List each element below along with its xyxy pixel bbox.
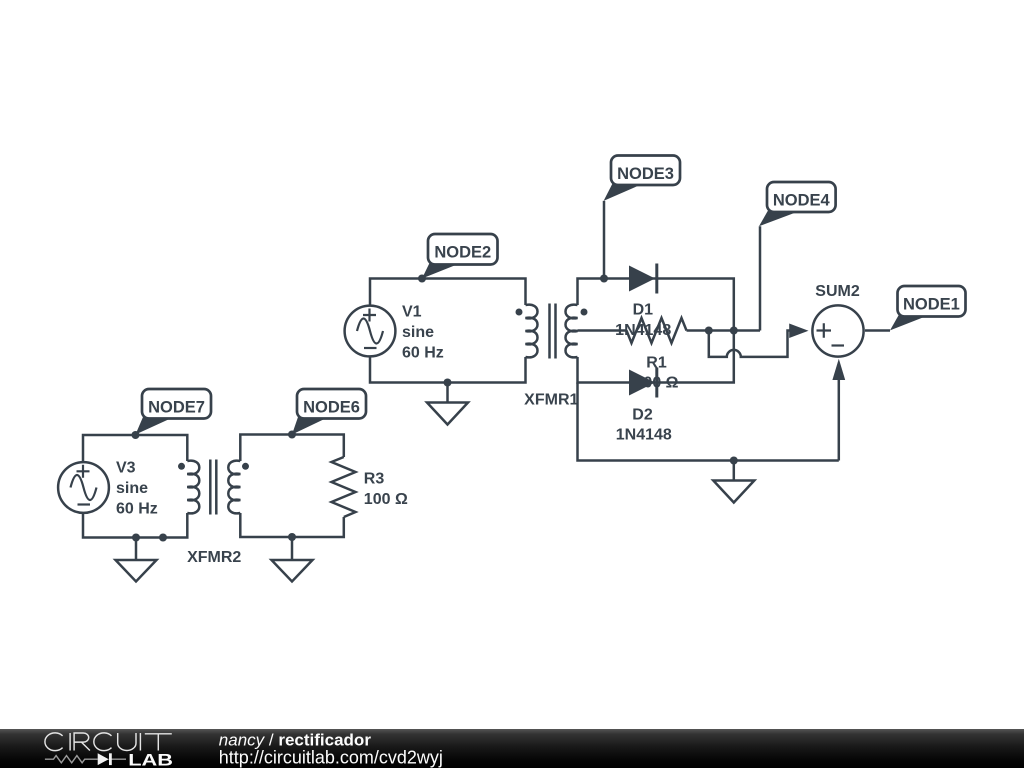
svg-text:D1: D1	[633, 302, 654, 319]
svg-text:100 Ω: 100 Ω	[364, 491, 408, 508]
svg-text:NODE3: NODE3	[617, 165, 674, 183]
svg-text:R3: R3	[364, 471, 385, 488]
svg-text:sine: sine	[116, 480, 148, 497]
svg-text:D2: D2	[632, 407, 653, 424]
svg-text:60 Hz: 60 Hz	[402, 345, 444, 362]
svg-text:1N4148: 1N4148	[615, 322, 671, 339]
svg-text:60 Hz: 60 Hz	[116, 501, 158, 518]
svg-text:V1: V1	[402, 304, 422, 321]
svg-text:NODE6: NODE6	[303, 398, 360, 416]
svg-text:SUM2: SUM2	[815, 283, 860, 300]
svg-text:V3: V3	[116, 460, 136, 477]
svg-text:XFMR1: XFMR1	[524, 392, 578, 409]
svg-text:NODE4: NODE4	[773, 191, 831, 209]
svg-text:LAB: LAB	[128, 752, 173, 768]
svg-text:NODE7: NODE7	[148, 398, 205, 416]
svg-text:http://circuitlab.com/cvd2wyj: http://circuitlab.com/cvd2wyj	[219, 748, 443, 768]
svg-text:NODE1: NODE1	[903, 295, 960, 313]
svg-text:1N4148: 1N4148	[616, 427, 672, 444]
svg-text:sine: sine	[402, 324, 434, 341]
svg-text:XFMR2: XFMR2	[187, 549, 241, 566]
svg-text:NODE2: NODE2	[434, 243, 491, 261]
